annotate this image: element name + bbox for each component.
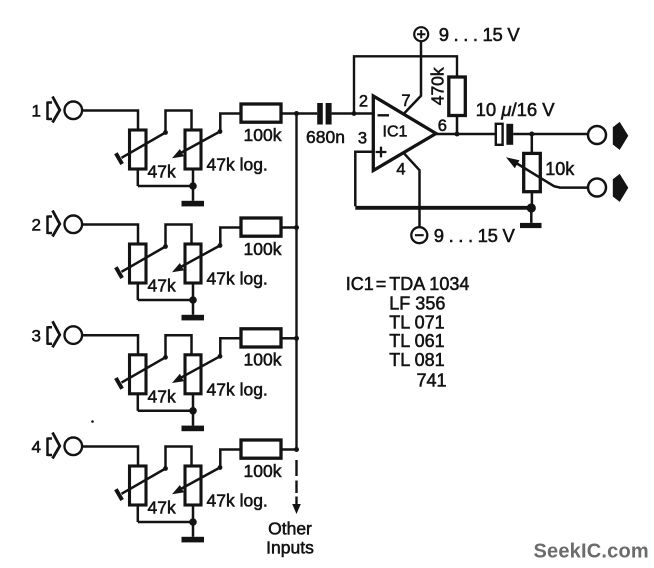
svg-text:470k: 470k xyxy=(427,67,447,105)
svg-text:3: 3 xyxy=(358,130,367,148)
svg-text:1: 1 xyxy=(32,102,41,121)
svg-text:6: 6 xyxy=(438,117,447,135)
svg-text:4: 4 xyxy=(32,438,41,457)
svg-text:680n: 680n xyxy=(306,127,345,147)
svg-text:IC1: IC1 xyxy=(383,124,408,141)
svg-text:IC1: IC1 xyxy=(346,274,374,294)
svg-text:TL 081: TL 081 xyxy=(389,350,444,370)
svg-text:741: 741 xyxy=(417,371,447,391)
svg-text:TDA 1034: TDA 1034 xyxy=(389,274,469,294)
svg-text:Inputs: Inputs xyxy=(266,538,314,558)
svg-text:2: 2 xyxy=(32,216,41,235)
svg-text:LF 356: LF 356 xyxy=(389,293,445,313)
svg-text:10k: 10k xyxy=(545,159,575,179)
svg-text:=: = xyxy=(376,274,387,294)
svg-text:7: 7 xyxy=(401,92,410,110)
svg-text:TL 071: TL 071 xyxy=(389,313,444,333)
svg-text:Other: Other xyxy=(268,519,312,539)
svg-text:3: 3 xyxy=(32,327,41,346)
svg-text:10 μ/16 V: 10 μ/16 V xyxy=(476,99,556,120)
svg-text:9 . . . 15 V: 9 . . . 15 V xyxy=(434,225,516,246)
svg-text:4: 4 xyxy=(396,161,405,179)
svg-text:TL 061: TL 061 xyxy=(389,331,444,351)
svg-text:9 . . . 15 V: 9 . . . 15 V xyxy=(439,24,521,45)
svg-text:SeekIC.com: SeekIC.com xyxy=(534,541,649,563)
svg-text:2: 2 xyxy=(359,93,368,111)
